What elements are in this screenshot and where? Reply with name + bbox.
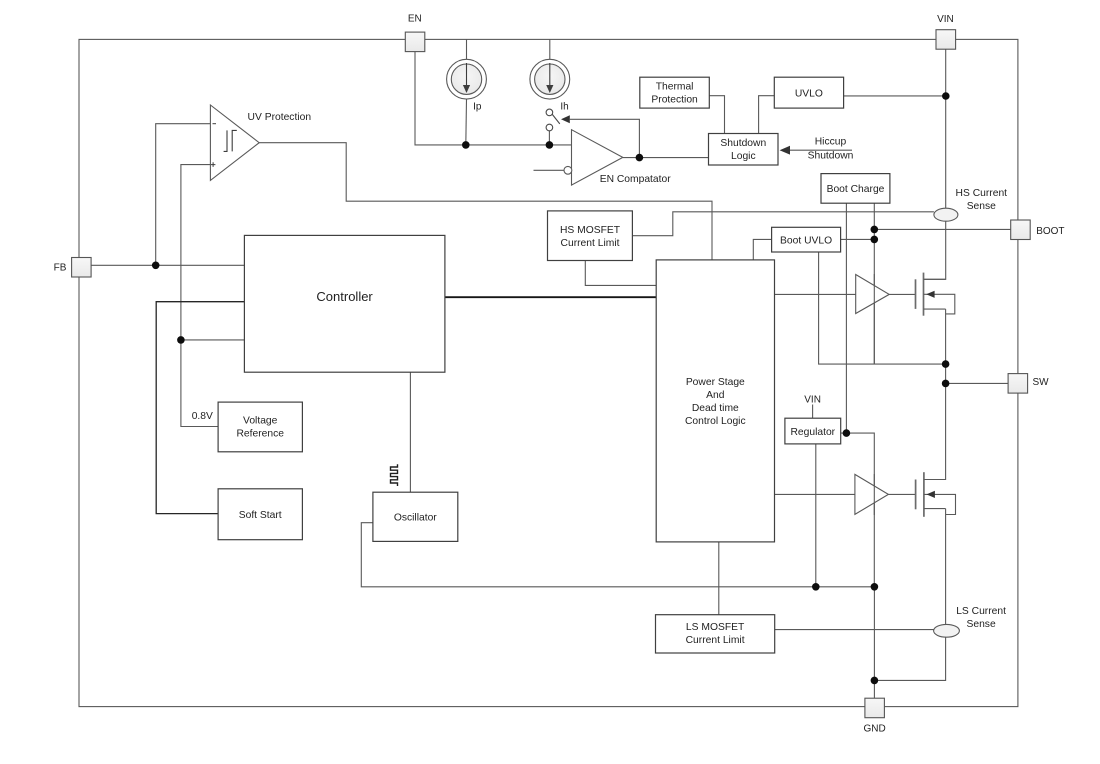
wire Power Stage to HS driver	[775, 293, 856, 295]
node reference tap	[177, 336, 185, 344]
svg-text:SW: SW	[1033, 377, 1050, 388]
wire LS driver to LS MOSFET gate	[888, 493, 915, 495]
svg-text:Ih: Ih	[560, 102, 568, 113]
node FB tap	[152, 262, 160, 270]
svg-text:EN Compatator: EN Compatator	[600, 174, 672, 185]
svg-text:Regulator: Regulator	[790, 427, 835, 438]
box UVLO	[774, 77, 843, 108]
transistor LS MOSFET	[916, 472, 924, 517]
svg-text:Hiccup: Hiccup	[815, 136, 847, 147]
wire FB pin to Controller	[91, 264, 244, 266]
node GND lateral	[871, 677, 879, 685]
wire HS MOSFET Current Limit to Power Stage	[585, 261, 656, 286]
svg-text:And: And	[706, 390, 725, 401]
clock waveform glyph	[391, 464, 398, 486]
node EN comparator output	[636, 154, 644, 162]
box Oscillator	[373, 492, 458, 541]
wire Ip top stub from border	[466, 39, 468, 59]
node Ih junction	[546, 141, 554, 149]
svg-text:LS MOSFET: LS MOSFET	[686, 622, 745, 633]
svg-text:Current Limit: Current Limit	[561, 238, 620, 249]
box Shutdown Logic	[709, 134, 779, 166]
pin VIN	[936, 14, 956, 49]
pin EN	[405, 13, 425, 51]
svg-text:Soft Start: Soft Start	[239, 510, 282, 521]
wire GND riser over LS driver	[873, 474, 875, 515]
node Regulator leg	[812, 583, 820, 591]
switch hysteresis select	[546, 109, 560, 131]
svg-text:HS Current: HS Current	[956, 188, 1008, 199]
box Boot UVLO	[772, 227, 841, 252]
wire HS MOSFET Current Limit to HS current sense	[632, 212, 934, 236]
node Boot UVLO wire	[871, 236, 879, 244]
wire Boot Charge leg A to Regulator node	[845, 203, 847, 433]
wire Boot Charge leg B to SW sense line	[873, 203, 875, 364]
wire BOOT net to BOOT pin	[874, 228, 1010, 230]
wire hysteresis feedback riser and to switch	[570, 119, 640, 157]
LS current sense ellipse	[934, 624, 960, 637]
buffer LS gate driver	[855, 474, 889, 514]
wire reference tap to Controller	[181, 339, 245, 341]
box Power Stage And Dead time Control Logic	[656, 260, 774, 542]
dark wire Soft Start to Controller	[156, 302, 244, 514]
wire VIN rail from pin to HS current sense	[945, 49, 947, 208]
wire Ip bottom to junction	[465, 99, 468, 145]
svg-text:Logic: Logic	[731, 151, 756, 162]
svg-text:Sense: Sense	[967, 201, 996, 212]
svg-text:Ip: Ip	[473, 102, 482, 113]
wire Power Stage to LS driver	[775, 493, 855, 495]
wire EN pin down and right to EN comparator + input	[415, 52, 572, 145]
pin BOOT	[1011, 220, 1065, 240]
wire Ih top stub from border	[549, 39, 551, 59]
wire VIN rail below sense to HS drain	[924, 221, 946, 279]
op-amp EN comparator	[564, 130, 623, 185]
box Soft Start	[218, 489, 302, 540]
current source Ih	[530, 59, 570, 99]
node Ip junction	[462, 141, 470, 149]
svg-text:BOOT: BOOT	[1036, 226, 1064, 237]
node BOOT wire	[871, 226, 879, 234]
svg-text:Protection: Protection	[651, 94, 698, 105]
plus input mark	[211, 162, 216, 167]
wire EN comparator output to Shutdown Logic	[623, 157, 709, 159]
node UVLO-VIN	[942, 92, 950, 100]
box Controller	[244, 235, 445, 372]
svg-text:Sense: Sense	[966, 619, 995, 630]
wire FB to UV Protection minus input	[156, 124, 211, 266]
wire reference to UV Protection plus input	[181, 165, 218, 427]
wire Oscillator out to GND rail	[361, 523, 874, 587]
op-amp UV Protection comparator	[210, 105, 259, 180]
transistor HS MOSFET	[916, 273, 924, 316]
pin FB	[54, 258, 91, 278]
svg-text:Voltage: Voltage	[243, 416, 278, 427]
wire Boot UVLO bottom to SW sense	[819, 252, 946, 364]
wire Regulator bottom leg to oscillator net	[815, 444, 817, 587]
current source Ip	[447, 59, 487, 99]
wire HS driver to HS MOSFET gate	[889, 293, 915, 295]
box LS MOSFET Current Limit	[656, 615, 775, 653]
box Regulator	[785, 418, 841, 444]
svg-text:Thermal: Thermal	[656, 81, 694, 92]
wire UVLO right to VIN rail	[844, 95, 946, 97]
svg-text:UVLO: UVLO	[795, 88, 823, 99]
minus input mark	[213, 123, 217, 125]
wire Controller to Oscillator	[409, 372, 411, 492]
wire HS source to SW node	[945, 309, 947, 383]
wire UV Protection output to Power Stage	[259, 143, 712, 260]
svg-text:Shutdown: Shutdown	[720, 138, 766, 149]
node SW	[942, 380, 950, 388]
box Thermal Protection	[640, 77, 710, 108]
node Regulator output	[843, 429, 851, 437]
wire SW node to SW pin	[946, 382, 1009, 384]
arrowhead Hiccup Shutdown	[780, 146, 790, 155]
wire UVLO left to Shutdown Logic	[759, 96, 775, 134]
HS current sense ellipse	[934, 208, 958, 221]
svg-text:GND: GND	[863, 724, 885, 735]
svg-text:Control Logic: Control Logic	[685, 416, 746, 427]
wire Hiccup Shutdown input	[790, 149, 852, 151]
wire LS source to GND rail	[874, 509, 945, 681]
box Boot Charge	[821, 174, 890, 204]
svg-text:Boot UVLO: Boot UVLO	[780, 235, 832, 246]
svg-text:FB: FB	[54, 263, 67, 274]
svg-text:0.8V: 0.8V	[192, 411, 213, 422]
node oscillator-GND rail	[871, 583, 879, 591]
svg-text:Power Stage: Power Stage	[686, 377, 745, 388]
svg-text:Reference: Reference	[236, 429, 284, 440]
svg-text:Boot Charge: Boot Charge	[827, 184, 885, 195]
wire VIN label stub to Regulator	[812, 405, 814, 419]
svg-text:LS Current: LS Current	[956, 606, 1006, 617]
wire switch bottom to junction	[548, 131, 550, 145]
box HS MOSFET Current Limit	[548, 211, 633, 261]
node SW sense	[942, 360, 950, 368]
pin SW	[1008, 374, 1049, 394]
svg-text:HS MOSFET: HS MOSFET	[560, 225, 621, 236]
svg-text:Shutdown: Shutdown	[808, 151, 854, 162]
wire Power Stage to LS MOSFET Current Limit	[718, 542, 720, 615]
svg-text:Current Limit: Current Limit	[686, 635, 745, 646]
wire Boot UVLO left to Power Stage	[753, 239, 771, 260]
IC outline border	[79, 39, 1018, 706]
svg-text:UV Protection: UV Protection	[248, 112, 312, 123]
pin GND	[863, 698, 885, 734]
hysteresis glyph inside UV comparator	[224, 130, 237, 151]
svg-text:Dead time: Dead time	[692, 403, 739, 414]
wire EN comparator inverting stub	[534, 169, 564, 171]
wire SW node down to LS drain	[924, 383, 946, 479]
wire LS MOSFET Current Limit to LS current sense	[775, 629, 934, 631]
svg-text:VIN: VIN	[804, 395, 821, 406]
wire Boot Charge leg B over driver	[873, 274, 875, 364]
wire GND rail to GND pin	[873, 587, 875, 698]
wire Regulator output to GND rail riser	[841, 433, 875, 587]
svg-text:EN: EN	[408, 13, 422, 24]
arrowhead feedback to switch	[561, 115, 570, 123]
svg-text:VIN: VIN	[937, 14, 954, 25]
box Voltage Reference	[218, 402, 302, 452]
buffer HS gate driver	[856, 275, 890, 314]
wire Thermal Protection to Shutdown Logic	[709, 96, 724, 134]
dark wire Controller to Power Stage	[445, 296, 656, 298]
svg-text:Oscillator: Oscillator	[394, 512, 437, 523]
wire Boot UVLO right to BOOT net	[841, 238, 875, 240]
svg-text:Controller: Controller	[316, 289, 373, 304]
